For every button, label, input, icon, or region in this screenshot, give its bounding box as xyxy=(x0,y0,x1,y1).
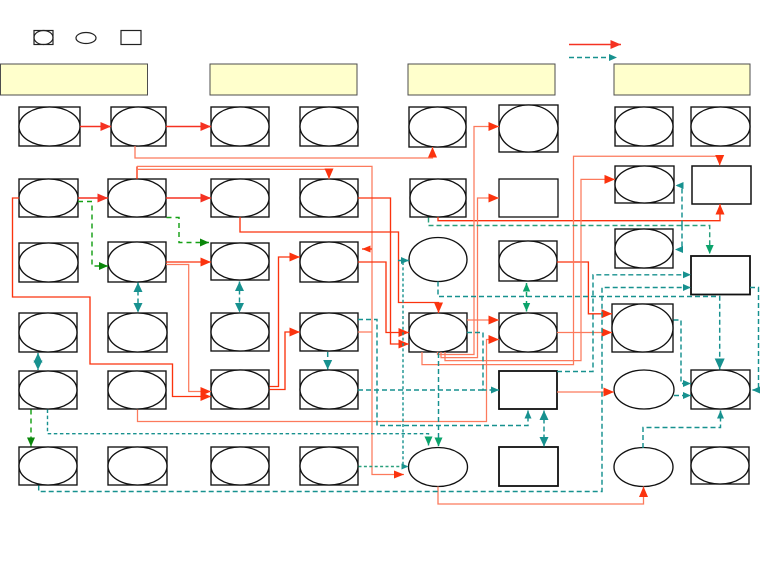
teal wire A6 bottom to H3 left xyxy=(39,284,691,492)
node C1 (rect+ellipse) xyxy=(211,107,269,146)
red wire long vertical via x372 to E6 left xyxy=(137,166,404,478)
teal double arrow B3-B4 xyxy=(134,283,143,313)
node C3 (rect+ellipse) xyxy=(211,243,269,280)
node D5 (rect+ellipse) xyxy=(300,370,358,409)
red wire E2 bottom to H2 bottom xyxy=(438,204,725,221)
teal branch to G3 right xyxy=(675,226,683,254)
node E2 (rect+ellipse) xyxy=(410,179,466,217)
red arrow E4 to F4 xyxy=(467,316,499,325)
red wire into B2 top xyxy=(136,166,138,179)
node A2 (rect+ellipse) xyxy=(19,179,78,217)
red wire E6 to G6 xyxy=(438,487,648,505)
node B1 (rect+ellipse) xyxy=(111,107,166,146)
red wire C2 bottom to E4 top xyxy=(240,217,443,313)
node G5 (ellipse) xyxy=(614,370,674,409)
red wire E4 to F1 xyxy=(438,122,500,355)
node H6 (rect+ellipse) xyxy=(691,447,749,484)
red wire B5 to F4 xyxy=(138,335,500,422)
legend solid red arrow xyxy=(569,40,621,49)
node B5 (rect+ellipse) xyxy=(108,371,166,409)
yellow header bar 4 xyxy=(614,64,750,95)
legend rect symbol xyxy=(121,31,141,45)
teal wire A5 to E6 top xyxy=(48,410,433,446)
teal wire D4 stub to F5 bottom xyxy=(358,320,532,426)
red wire E4 to H2 top xyxy=(422,155,724,365)
red wire E4 to G2 xyxy=(445,175,615,361)
red wire C5 to D4 left xyxy=(270,328,301,390)
teal wire D5 to F5 left xyxy=(358,389,483,391)
node H3 (rect) xyxy=(691,256,750,295)
green arrow A5 to A6 xyxy=(27,410,35,447)
teal double arrow A4-A5 xyxy=(34,353,43,370)
teal double arrow C3-C4 xyxy=(235,282,244,313)
node A4 (rect+ellipse) xyxy=(19,313,77,352)
teal wire G6 top to H5 bottom xyxy=(643,411,724,449)
node B2 (rect+ellipse) xyxy=(108,179,166,217)
node D3 (rect+ellipse) xyxy=(300,242,358,282)
node G2 (rect+ellipse) xyxy=(615,166,674,203)
red wire D3 to E4 left xyxy=(358,262,409,337)
node G4 (rect+ellipse) xyxy=(612,304,673,352)
node F1 (rect+ellipse) xyxy=(499,105,558,152)
teal arrow D4 to D5 xyxy=(323,352,332,370)
node H1 (rect+ellipse) xyxy=(691,107,750,146)
node B4 (rect+ellipse) xyxy=(108,313,167,352)
red wire D2 to E4 left xyxy=(358,198,409,349)
node D1 (rect+ellipse) xyxy=(300,107,358,146)
node E1 (rect+ellipse) xyxy=(409,107,466,147)
red wire B3 to C5 xyxy=(166,265,211,397)
teal wire F5 top to H3 left xyxy=(557,271,691,371)
red arrow B3 to C3 xyxy=(166,258,211,267)
red wire into D2 top xyxy=(137,169,334,180)
node H2 (rect) xyxy=(692,166,751,204)
node F4 (rect+ellipse) xyxy=(499,313,557,352)
yellow header bar 3 xyxy=(408,64,555,95)
node A3 (rect+ellipse) xyxy=(19,243,78,282)
yellow header bar 2 xyxy=(210,64,357,95)
legend dashed teal arrow xyxy=(569,54,617,61)
node G3 (rect+ellipse) xyxy=(615,229,673,268)
node E4 (rect+ellipse) xyxy=(409,313,467,352)
teal wire E3 bottom to H5 top xyxy=(438,282,725,370)
teal wire E4 right to F5 left xyxy=(467,333,499,394)
red snake A2 left to C5 xyxy=(13,198,212,401)
node F5 (rect) xyxy=(499,371,557,409)
node D4 (rect+ellipse) xyxy=(300,313,358,351)
red arrow F5 to G5 xyxy=(557,388,614,397)
teal double arrow F5-F6 xyxy=(540,411,549,447)
green wire A2 to B3 xyxy=(78,202,108,271)
red arrow A2 to B2 xyxy=(78,194,108,203)
teal wire D6 to E6 xyxy=(359,466,404,468)
node F2 (rect) xyxy=(499,179,558,217)
legend ellipse symbol xyxy=(76,33,96,44)
red wire C5 to D3 left xyxy=(270,253,301,387)
node F6 (rect) xyxy=(499,447,558,486)
node B6 (rect+ellipse) xyxy=(108,447,167,485)
red wire E4 to F2 xyxy=(441,194,499,358)
teal vertical x403 to E6 left xyxy=(402,262,409,470)
red arrow branch into D3 right xyxy=(362,246,372,253)
green wire B2 to C3 xyxy=(167,218,210,247)
red arrow F4 to G4 xyxy=(557,328,612,337)
teal arrow into E3 left xyxy=(398,257,409,264)
teal vertical to E6 top xyxy=(435,353,443,447)
legend rect+ellipse symbol xyxy=(34,31,53,45)
yellow header bar 1 xyxy=(1,64,148,95)
teal branch to G2 right xyxy=(676,182,684,226)
node E3 (ellipse) xyxy=(409,238,467,282)
node C5 (rect+ellipse) xyxy=(211,370,269,409)
node D6 (rect+ellipse) xyxy=(300,447,358,485)
teal wire E2 bottom to H3 top xyxy=(429,218,714,255)
node H5 (rect+ellipse) xyxy=(691,370,750,409)
node C4 (rect+ellipse) xyxy=(211,313,269,351)
red arrow B1 to C1 xyxy=(166,122,211,131)
node F3 (rect+ellipse) xyxy=(499,241,557,281)
green double arrow F3-F4 xyxy=(523,283,530,312)
node A6 (rect+ellipse) xyxy=(19,447,77,485)
node C6 (rect+ellipse) xyxy=(211,447,269,485)
node G1 (rect+ellipse) xyxy=(615,107,673,146)
red wire B1 bottom to E1 bottom xyxy=(135,146,437,158)
node D2 (rect+ellipse) xyxy=(300,179,358,217)
red arrow B2 to C2 xyxy=(166,194,211,203)
red wire D4 right join xyxy=(358,331,372,333)
node G6 (ellipse) xyxy=(614,448,673,487)
teal wire G4 to H5 left xyxy=(674,320,692,387)
red arrow A1 to B1 xyxy=(80,122,111,131)
teal wire H3 to H5 right xyxy=(750,288,760,394)
node C2 (rect+ellipse) xyxy=(211,179,269,217)
teal arrow G5 to H5 xyxy=(674,392,691,399)
node E6 (ellipse) xyxy=(409,448,468,487)
node A1 (rect+ellipse) xyxy=(19,107,80,146)
red wire F3 to G4 xyxy=(557,262,612,318)
node B3 (rect+ellipse) xyxy=(108,242,166,282)
node A5 (rect+ellipse) xyxy=(19,371,77,409)
